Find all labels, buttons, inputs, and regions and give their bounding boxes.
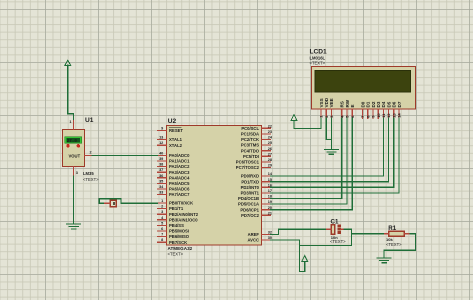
svg-text:AREF: AREF	[248, 232, 260, 237]
svg-text:6: 6	[161, 227, 163, 231]
svg-text:8: 8	[161, 238, 163, 242]
svg-text:D7: D7	[397, 101, 402, 107]
svg-text:14: 14	[397, 113, 402, 118]
svg-text:PC1/SDA: PC1/SDA	[241, 132, 259, 137]
svg-text:3: 3	[76, 171, 78, 175]
svg-text:2: 2	[161, 205, 163, 209]
svg-text:PD7/OC2: PD7/OC2	[241, 213, 260, 218]
svg-text:PD3/INT1: PD3/INT1	[241, 191, 260, 196]
svg-text:PC5/TDI: PC5/TDI	[243, 154, 259, 159]
svg-text:PB0/T0/XCK: PB0/T0/XCK	[169, 201, 193, 206]
svg-text:PA3/ADC3: PA3/ADC3	[169, 170, 190, 175]
svg-text:33: 33	[159, 191, 163, 195]
svg-text:PC4/TDO: PC4/TDO	[241, 148, 260, 153]
svg-text:PD4/OC1B: PD4/OC1B	[238, 196, 259, 201]
svg-text:35: 35	[159, 179, 163, 183]
svg-text:PA6/ADC6: PA6/ADC6	[169, 187, 190, 192]
svg-text:PA5/ADC5: PA5/ADC5	[169, 181, 190, 186]
svg-text:PD5/OC1A: PD5/OC1A	[238, 202, 259, 207]
svg-text:<TEXT>: <TEXT>	[386, 242, 402, 247]
svg-text:40: 40	[159, 151, 163, 155]
svg-text:PB2/AIN0/INT2: PB2/AIN0/INT2	[169, 212, 199, 217]
svg-text:XTAL2: XTAL2	[169, 143, 183, 148]
svg-text:PD2/INT0: PD2/INT0	[241, 185, 260, 190]
svg-text:PA7/ADC7: PA7/ADC7	[169, 192, 190, 197]
svg-text:<TEXT>: <TEXT>	[310, 61, 326, 66]
svg-text:<TEXT>: <TEXT>	[83, 177, 99, 182]
svg-text:38: 38	[159, 163, 163, 167]
svg-text:PB6/MISO: PB6/MISO	[169, 234, 190, 239]
svg-text:1: 1	[161, 199, 163, 203]
svg-text:PB3/AIN1/OC0: PB3/AIN1/OC0	[169, 217, 198, 222]
svg-text:5: 5	[161, 221, 163, 225]
svg-text:21: 21	[268, 211, 272, 215]
svg-text:PA1/ADC1: PA1/ADC1	[169, 159, 190, 164]
svg-text:U1: U1	[85, 117, 94, 124]
svg-text:2: 2	[90, 151, 92, 155]
svg-text:LCD1: LCD1	[310, 49, 328, 56]
svg-text:PB7/SCK: PB7/SCK	[169, 240, 187, 245]
svg-text:28: 28	[268, 158, 272, 162]
svg-text:29: 29	[268, 164, 272, 168]
svg-text:27: 27	[268, 152, 272, 156]
svg-text:26: 26	[268, 147, 272, 151]
svg-text:XTAL1: XTAL1	[169, 137, 183, 142]
svg-text:PC6/TOSC1: PC6/TOSC1	[236, 160, 260, 165]
svg-text:LM35: LM35	[83, 171, 94, 176]
svg-text:PC0/SCL: PC0/SCL	[241, 126, 259, 131]
svg-text:PB5/MOSI: PB5/MOSI	[169, 229, 189, 234]
svg-text:7: 7	[161, 233, 163, 237]
svg-text:U2: U2	[168, 118, 177, 125]
svg-text:RESET: RESET	[169, 128, 183, 133]
svg-text:<TEXT>: <TEXT>	[168, 251, 184, 256]
svg-text:PC3/TMS: PC3/TMS	[241, 143, 259, 148]
svg-text:PD0/RXD: PD0/RXD	[241, 174, 259, 179]
svg-text:39: 39	[159, 157, 163, 161]
svg-text:VOUT: VOUT	[69, 154, 81, 159]
svg-text:27.0: 27.0	[67, 140, 78, 144]
svg-text:PB4/SS: PB4/SS	[169, 223, 184, 228]
svg-text:13: 13	[159, 136, 163, 140]
svg-text:37: 37	[159, 168, 163, 172]
svg-text:9: 9	[161, 127, 163, 131]
svg-text:PD1/TXD: PD1/TXD	[241, 179, 259, 184]
svg-text:AVCC: AVCC	[247, 238, 259, 243]
svg-text:PD6/ICP1: PD6/ICP1	[240, 207, 259, 212]
svg-text:1: 1	[69, 120, 71, 124]
svg-text:PB1/T1: PB1/T1	[169, 206, 184, 211]
svg-text:E: E	[350, 104, 355, 107]
svg-text:PA0/ADC0: PA0/ADC0	[169, 153, 190, 158]
svg-text:PA4/ADC4: PA4/ADC4	[169, 175, 190, 180]
svg-text:PA2/ADC2: PA2/ADC2	[169, 164, 190, 169]
svg-text:12: 12	[159, 141, 163, 145]
svg-text:PC7/TOSC2: PC7/TOSC2	[236, 165, 260, 170]
svg-text:PC2/TCK: PC2/TCK	[241, 137, 259, 142]
svg-text:36: 36	[159, 174, 163, 178]
svg-text:3: 3	[161, 210, 163, 214]
svg-text:22: 22	[268, 124, 272, 128]
svg-text:VEE: VEE	[329, 98, 334, 107]
svg-text:<TEXT>: <TEXT>	[330, 239, 346, 244]
svg-text:25: 25	[268, 141, 272, 145]
svg-text:23: 23	[268, 130, 272, 134]
